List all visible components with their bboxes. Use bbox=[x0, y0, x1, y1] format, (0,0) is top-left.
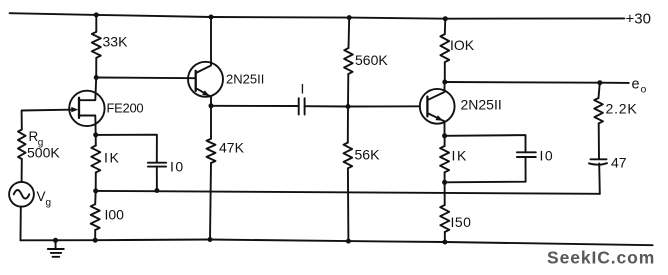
wire feedback node to 100 bbox=[94, 191, 97, 204]
node top rail / 10K bbox=[443, 16, 448, 21]
svg-text:I50: I50 bbox=[451, 214, 472, 230]
wire bypass cap to feedback line bbox=[156, 167, 158, 191]
svg-text:560K: 560K bbox=[355, 52, 388, 68]
ground bbox=[55, 240, 57, 249]
node Q2 base divider bbox=[346, 104, 351, 109]
svg-text:I0: I0 bbox=[540, 148, 555, 164]
node output / 2.2K bbox=[597, 80, 602, 85]
node 1K / 150 bbox=[442, 180, 447, 185]
node ground rail / ground symbol bbox=[53, 238, 58, 243]
capacitor 47 feedback bbox=[591, 158, 607, 160]
wire 33K to FET drain node bbox=[95, 58, 97, 78]
node FET source / 1K bbox=[93, 132, 98, 137]
svg-text:I0: I0 bbox=[170, 159, 185, 175]
node ground rail / 150 bbox=[442, 240, 447, 245]
svg-text:33K: 33K bbox=[103, 34, 129, 50]
wire top rail to 33K bbox=[95, 15, 97, 32]
node FET drain / Q1 base bbox=[94, 75, 99, 80]
wire 100 to ground rail bbox=[94, 230, 96, 240]
node top rail / Q1 collector bbox=[209, 15, 214, 20]
wire node to 150 bbox=[444, 182, 446, 205]
wire bypass box top bbox=[445, 135, 526, 152]
wire 1K to feedback node bbox=[95, 173, 97, 191]
svg-text:g: g bbox=[46, 198, 52, 209]
wire 2.2K to output line bbox=[599, 83, 600, 98]
svg-text:V: V bbox=[37, 189, 46, 204]
svg-text:2N25II: 2N25II bbox=[461, 97, 502, 113]
wire Q1 emitter to 47K bbox=[210, 106, 212, 139]
node ground rail / 56K bbox=[346, 239, 351, 244]
node bypass cap / feedback line bbox=[154, 188, 159, 193]
svg-text:SeekIC.com: SeekIC.com bbox=[547, 248, 655, 268]
wire 47 cap to 2.2K bbox=[598, 123, 600, 159]
wire top rail to 10K bbox=[444, 19, 447, 34]
wire feedback riser bbox=[598, 164, 601, 194]
wire FET source node to 1K bbox=[95, 135, 97, 146]
svg-text:500K: 500K bbox=[27, 145, 60, 161]
resistor 1K stage2 bbox=[440, 146, 449, 172]
svg-text:o: o bbox=[641, 84, 647, 96]
svg-text:+30: +30 bbox=[626, 11, 651, 28]
wire Vg bottom to ground rail bbox=[20, 207, 22, 241]
node top rail / 33K bbox=[94, 12, 99, 17]
resistor 150 bbox=[440, 205, 449, 232]
resistor 1K stage1 bbox=[91, 146, 100, 173]
svg-text:47K: 47K bbox=[219, 140, 245, 156]
generator Vg bbox=[9, 182, 34, 207]
resistor 560K bbox=[344, 48, 353, 74]
svg-text:e: e bbox=[632, 77, 640, 93]
transistor Q1 FE200 JFET bbox=[69, 91, 104, 126]
svg-text:56K: 56K bbox=[355, 147, 381, 163]
svg-text:K: K bbox=[110, 150, 120, 166]
wire FET drain node to Q1 base bbox=[96, 77, 194, 80]
wire source node to bypass cap bbox=[96, 135, 157, 163]
resistor 100 bbox=[91, 204, 100, 230]
capacitor 10 stage1 bypass bbox=[148, 162, 166, 164]
svg-text:FE200: FE200 bbox=[107, 101, 144, 116]
node Q2 emitter bbox=[442, 133, 447, 138]
wire 560K to base node bbox=[347, 74, 349, 107]
wire +30 top supply rail bbox=[10, 13, 625, 19]
svg-text:47: 47 bbox=[611, 155, 627, 171]
wire 1K to node bbox=[444, 172, 446, 182]
wire 56K to ground rail bbox=[347, 168, 350, 241]
node Q1 emitter bbox=[209, 103, 214, 108]
node ground rail / 47K bbox=[208, 237, 213, 242]
resistor Rg 500K bbox=[18, 130, 26, 160]
wire 10K to Q2 collector bbox=[444, 62, 446, 82]
wire feedback line bbox=[96, 191, 600, 194]
svg-text:2.2K: 2.2K bbox=[606, 101, 638, 117]
node ground rail / 100 bbox=[93, 238, 98, 243]
transistor Q2 2N2511 bbox=[420, 89, 455, 124]
wire ground bottom rail bbox=[21, 240, 653, 246]
resistor 2.2K bbox=[594, 98, 603, 123]
svg-text:I: I bbox=[301, 81, 305, 97]
wire 150 to ground rail bbox=[444, 232, 446, 242]
wire top rail to 560K bbox=[348, 18, 351, 48]
wire base node to 56K bbox=[347, 107, 349, 143]
transistor Q1 2N2511 bbox=[188, 62, 223, 97]
node Q2 collector / output bbox=[442, 80, 447, 85]
wire output eo line bbox=[445, 81, 629, 84]
resistor 33K bbox=[92, 32, 101, 58]
svg-text:K: K bbox=[457, 148, 467, 164]
wire 47K to ground rail bbox=[210, 163, 211, 240]
wire bypass box bottom bbox=[445, 157, 526, 182]
capacitor 1 coupling bbox=[298, 98, 300, 114]
resistor 56K bbox=[344, 143, 353, 169]
resistor 10K bbox=[440, 34, 449, 62]
svg-text:I: I bbox=[452, 148, 456, 164]
node 1K / 100 feedback bbox=[93, 188, 98, 193]
wire Q2 emitter to 1K bbox=[444, 136, 446, 146]
capacitor 10 stage2 bypass bbox=[517, 151, 536, 153]
svg-text:I: I bbox=[104, 150, 108, 166]
wire Vg top to Rg bbox=[21, 159, 23, 182]
wire coupling cap to Q2 base bbox=[305, 105, 420, 107]
wire Q1 emitter to coupling cap bbox=[211, 105, 299, 107]
svg-text:IOK: IOK bbox=[450, 37, 475, 53]
svg-text:2N25II: 2N25II bbox=[226, 72, 264, 87]
wire Rg top to FET gate bbox=[22, 110, 70, 130]
resistor 47K bbox=[207, 139, 216, 163]
svg-text:I00: I00 bbox=[105, 207, 125, 223]
node top rail / 560K bbox=[347, 15, 352, 20]
